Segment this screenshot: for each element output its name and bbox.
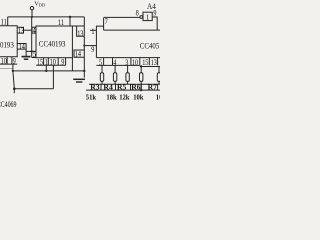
junction dot R6 bottom — [140, 89, 142, 91]
pin cells 10 9 U1 bottom — [0, 57, 17, 64]
svg-text:13: 13 — [18, 26, 24, 35]
svg-text:8: 8 — [136, 8, 139, 17]
wire 13 to 4 — [24, 29, 33, 31]
svg-text:1: 1 — [45, 57, 48, 66]
svg-text:51k: 51k — [86, 93, 97, 102]
wire pin 7 stub up — [103, 18, 105, 26]
wire VDD stem — [31, 10, 33, 17]
wire U1 pin9 drop — [13, 64, 14, 89]
pin cell 13 U1 — [17, 27, 23, 33]
svg-text:R7: R7 — [148, 83, 157, 92]
svg-text:18k: 18k — [106, 93, 117, 102]
svg-text:14: 14 — [19, 42, 25, 51]
svg-text:R4: R4 — [103, 83, 112, 92]
wire pin 11 stub U2 — [69, 17, 71, 26]
svg-text:1: 1 — [91, 27, 94, 36]
wire bottom left rail — [14, 88, 53, 90]
junction dot rail U2 — [69, 16, 71, 18]
wire pin 1 stub — [90, 29, 96, 31]
wire pin 14 down — [25, 49, 27, 56]
wire U2 top edge extension — [72, 25, 84, 27]
pin cell 4 U2 — [32, 27, 36, 33]
wire net vertical right of U2 — [83, 17, 85, 78]
wire R6 top — [140, 67, 142, 73]
resistor R6 body — [140, 73, 143, 82]
resistor R5 body — [126, 73, 129, 82]
wire R7 bottom — [158, 81, 160, 84]
junction dot VDD stem — [31, 16, 33, 18]
pin cell 5 U2 — [32, 51, 37, 57]
pin cells 15 1 10 9 U2 bottom — [36, 58, 65, 65]
resistor R3 body — [100, 73, 103, 82]
junction dot R6 top — [140, 65, 142, 67]
wire R4 bottom — [114, 81, 116, 84]
multiplexer U3 CC4051 box — [96, 26, 160, 57]
svg-text:DD: DD — [39, 3, 46, 8]
pin cell 14 U2 — [74, 50, 84, 57]
svg-text:9: 9 — [61, 57, 64, 66]
wire stub below rail dot — [13, 89, 15, 94]
svg-text:11: 11 — [1, 18, 7, 27]
wire U2 pin10 drop — [52, 65, 54, 89]
svg-text:9: 9 — [13, 56, 16, 65]
pin cells 5 4 3 10 15 13 U3 bottom — [96, 58, 157, 66]
junction dot net vertical — [83, 70, 85, 72]
svg-text:9: 9 — [153, 8, 156, 17]
wire R3 top — [101, 65, 103, 72]
counter U2 CC40193 box — [36, 26, 72, 58]
inverter A4 gate box — [143, 12, 152, 20]
svg-text:R5: R5 — [117, 83, 126, 92]
svg-text:CC40193: CC40193 — [39, 39, 66, 48]
svg-text:9: 9 — [91, 45, 94, 54]
wire R5 top — [127, 65, 129, 72]
svg-text:12k: 12k — [119, 93, 130, 102]
wire U2 right edge extension down — [71, 58, 73, 71]
wire node to ground branch — [26, 50, 32, 52]
wire cell line right with branch — [140, 66, 160, 68]
wire pin7 to inverter — [104, 16, 140, 18]
resistor label row box — [86, 84, 160, 90]
svg-text:7: 7 — [105, 17, 108, 26]
junction dot pin9 branch — [83, 45, 85, 47]
svg-text:10k: 10k — [133, 93, 144, 102]
svg-text:CC4051: CC4051 — [140, 42, 160, 51]
wire faint left stub — [0, 68, 13, 70]
resistor R4 body — [113, 73, 116, 82]
wire R5 bottom — [127, 81, 129, 84]
svg-text:R3: R3 — [90, 83, 99, 92]
wire mid horizontal net — [13, 70, 84, 72]
svg-text:10: 10 — [50, 57, 56, 66]
svg-text:10k: 10k — [156, 93, 160, 102]
svg-text:4: 4 — [33, 26, 36, 35]
svg-text:5: 5 — [33, 50, 36, 59]
wire U2 pin1 drop — [45, 65, 47, 71]
wire inverter output — [152, 17, 157, 30]
svg-text:13: 13 — [77, 29, 83, 38]
pin cell 14 U1 — [17, 44, 26, 50]
ground G2 — [73, 79, 85, 82]
wire R6 bottom — [140, 81, 142, 90]
junction dot drop rail — [13, 87, 16, 90]
svg-text:13: 13 — [151, 58, 157, 67]
wire R4 top — [114, 65, 116, 72]
svg-text:15: 15 — [142, 58, 148, 67]
svg-text:1: 1 — [146, 14, 150, 22]
wire R7 top — [158, 67, 160, 73]
wire pin 11 stub U1 — [7, 17, 9, 26]
wire VDD rail — [8, 16, 85, 18]
svg-text:CC4069: CC4069 — [0, 100, 16, 109]
counter U1 CC40193 box — [0, 26, 17, 57]
resistor R7 body — [157, 73, 160, 82]
svg-text:10: 10 — [1, 56, 7, 65]
junction dot pin 5 — [31, 50, 33, 52]
wire VDD drop to pin 5 — [31, 17, 33, 52]
pin cell 13 U2 — [77, 26, 85, 36]
svg-text:R6: R6 — [131, 83, 140, 92]
svg-text:14: 14 — [75, 49, 81, 58]
junction dot drop mid — [12, 70, 14, 72]
wire to U3 pin 9 — [84, 45, 96, 47]
wire R3 bottom — [101, 81, 103, 84]
inverter A4 input bubble — [140, 16, 143, 19]
svg-text:15: 15 — [37, 57, 43, 66]
svg-text:CC40193: CC40193 — [0, 41, 14, 50]
power terminal VDD — [30, 7, 33, 10]
svg-text:10: 10 — [132, 58, 138, 67]
ground G1 — [22, 57, 31, 60]
junction dot pin1 net — [45, 70, 47, 72]
